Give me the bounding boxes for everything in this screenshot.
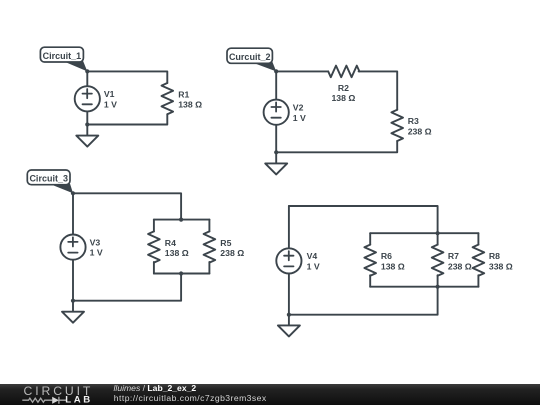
svg-text:138 Ω: 138 Ω xyxy=(381,262,405,272)
wire R8 top lead xyxy=(477,233,479,244)
ground circuit 1 xyxy=(76,125,98,147)
svg-text:138 Ω: 138 Ω xyxy=(331,93,355,103)
svg-text:R1: R1 xyxy=(178,89,189,99)
resistor R4 xyxy=(148,231,189,262)
node bottom circuit 4 xyxy=(287,313,291,317)
wire parallel bottom rail circuit 4 xyxy=(370,286,478,288)
ground circuit 2 xyxy=(265,152,287,174)
node top circuit 3 xyxy=(71,191,75,195)
svg-text:V4: V4 xyxy=(307,251,318,261)
wire top rail circuit 2 left xyxy=(276,70,328,72)
net label Circuit_3 xyxy=(27,170,73,193)
wire right rail circuit 2 xyxy=(276,141,397,152)
junction parallel bottom circuit 4 xyxy=(436,285,440,289)
svg-text:R8: R8 xyxy=(489,251,500,261)
wire parallel top rail circuit 3 xyxy=(154,219,210,221)
resistor R3 xyxy=(391,110,431,141)
resistor R8 xyxy=(473,245,513,276)
wire top rail circuit 3 xyxy=(73,193,181,219)
wire R6 bottom lead xyxy=(369,275,371,287)
footer bar xyxy=(0,384,540,405)
svg-text:Circuit_1: Circuit_1 xyxy=(43,51,82,61)
wire R6 top lead xyxy=(369,233,371,244)
svg-text:Curcuit_2: Curcuit_2 xyxy=(229,52,271,62)
wire R7 bottom lead xyxy=(437,275,439,287)
wire V4 top lead xyxy=(288,206,290,248)
svg-text:1 V: 1 V xyxy=(293,113,306,123)
svg-text:LAB: LAB xyxy=(65,394,93,405)
svg-text:R4: R4 xyxy=(165,238,176,248)
wire top rail circuit 2 right xyxy=(359,71,398,109)
wire bottom rail circuit 3 xyxy=(73,274,181,301)
wire V3 top lead xyxy=(72,193,74,234)
node top circuit 1 xyxy=(85,69,89,73)
svg-text:138 Ω: 138 Ω xyxy=(178,100,202,110)
resistor R2 xyxy=(328,66,359,103)
svg-text:R3: R3 xyxy=(408,116,419,126)
svg-text:V2: V2 xyxy=(293,102,304,112)
resistor R6 xyxy=(364,245,404,276)
wire bottom rail circuit 4 xyxy=(289,287,438,315)
svg-text:338 Ω: 338 Ω xyxy=(489,262,513,272)
ground circuit 3 xyxy=(62,301,84,323)
wire top rail circuit 1 xyxy=(87,71,167,83)
voltage source V3 xyxy=(60,235,102,260)
svg-text:http://circuitlab.com/c7zgb3re: http://circuitlab.com/c7zgb3rem3sex xyxy=(114,393,267,403)
wire top rail circuit 4 xyxy=(289,206,438,233)
voltage source V1 xyxy=(75,86,117,111)
wire R8 bottom lead xyxy=(477,275,479,287)
resistor R5 xyxy=(204,231,245,262)
wire parallel bottom rail circuit 3 xyxy=(154,273,210,275)
svg-text:R2: R2 xyxy=(338,83,349,93)
svg-text:1 V: 1 V xyxy=(104,99,117,109)
svg-text:R7: R7 xyxy=(448,251,459,261)
wire V2 top lead xyxy=(275,71,277,99)
svg-text:R6: R6 xyxy=(381,251,392,261)
resistor R1 xyxy=(162,83,203,114)
junction parallel top circuit 4 xyxy=(436,231,440,235)
svg-text:1 V: 1 V xyxy=(307,262,320,272)
junction parallel bottom circuit 3 xyxy=(179,271,183,275)
ground circuit 4 xyxy=(278,315,300,337)
net label Curcuit_2 xyxy=(227,48,276,71)
svg-text:R5: R5 xyxy=(220,238,231,248)
wire R5 bottom lead xyxy=(208,262,210,274)
node top circuit 2 xyxy=(274,69,278,73)
wire parallel top rail circuit 4 xyxy=(370,232,478,234)
wire V4 bottom lead xyxy=(288,274,290,315)
svg-text:V3: V3 xyxy=(90,237,101,247)
svg-text:238 Ω: 238 Ω xyxy=(408,127,432,137)
svg-text:V1: V1 xyxy=(104,89,115,99)
wire R4 bottom lead xyxy=(153,262,155,274)
svg-text:238 Ω: 238 Ω xyxy=(448,262,472,272)
wire bottom rail circuit 1 xyxy=(87,114,167,124)
wire R5 top lead xyxy=(208,220,210,232)
wire V2 bottom lead xyxy=(275,125,277,153)
resistor R7 xyxy=(432,245,472,276)
svg-text:Circuit_3: Circuit_3 xyxy=(29,174,68,184)
wire R4 top lead xyxy=(153,220,155,232)
voltage source V4 xyxy=(276,248,320,273)
node bottom circuit 3 xyxy=(71,299,75,303)
wire V3 bottom lead xyxy=(72,260,74,301)
footer title text xyxy=(114,383,267,403)
svg-text:138 Ω: 138 Ω xyxy=(165,248,189,258)
wire R7 top lead xyxy=(437,233,439,244)
wire V1 bottom lead xyxy=(86,111,88,124)
node bottom circuit 1 xyxy=(85,122,89,126)
net label Circuit_1 xyxy=(40,47,87,71)
logo CIRCUIT LAB xyxy=(22,384,93,405)
svg-text:lluimes / Lab_2_ex_2: lluimes / Lab_2_ex_2 xyxy=(114,383,197,393)
junction parallel top circuit 3 xyxy=(179,218,183,222)
voltage source V2 xyxy=(264,100,306,125)
svg-text:1 V: 1 V xyxy=(90,248,103,258)
node bottom circuit 2 xyxy=(274,150,278,154)
wire V1 top lead xyxy=(86,71,88,86)
svg-text:238 Ω: 238 Ω xyxy=(220,248,244,258)
